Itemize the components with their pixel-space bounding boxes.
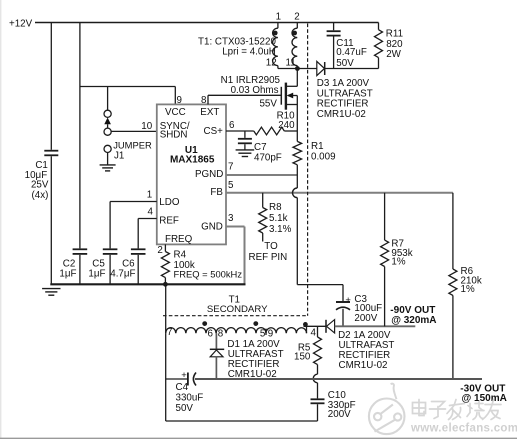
svg-text:J1: J1 [114,150,124,161]
svg-text:0.03 Ohms: 0.03 Ohms [231,85,279,96]
svg-text:6: 6 [208,328,214,339]
svg-text:0.47uF: 0.47uF [336,47,367,58]
svg-text:2: 2 [294,11,299,22]
svg-text:5: 5 [260,328,266,339]
svg-text:EXT: EXT [200,107,219,118]
svg-text:PGND: PGND [195,169,223,180]
svg-text:1%: 1% [461,284,475,295]
svg-text:7: 7 [167,327,172,338]
svg-text:+12V: +12V [9,18,33,29]
svg-text:C7: C7 [254,142,267,153]
svg-text:0.009: 0.009 [311,151,336,162]
svg-text:6: 6 [229,120,235,131]
svg-text:2W: 2W [386,49,401,60]
svg-text:FB: FB [210,187,223,198]
svg-text:+: + [345,295,351,306]
svg-text:150: 150 [294,352,311,363]
svg-text:50V: 50V [336,58,354,69]
svg-text:5.1k: 5.1k [269,213,288,224]
svg-text:1: 1 [147,190,152,201]
svg-text:200V: 200V [328,409,351,420]
svg-text:55V: 55V [259,99,277,110]
svg-text:3.1%: 3.1% [269,224,292,235]
svg-text:4.7μF: 4.7μF [110,269,135,280]
svg-text:8: 8 [201,95,207,106]
svg-text:+: + [181,370,187,381]
svg-text:GND: GND [201,222,223,233]
svg-text:1μF: 1μF [88,269,105,280]
svg-text:TO: TO [264,241,278,252]
svg-text:LDO: LDO [159,197,180,208]
svg-text:8: 8 [218,328,224,339]
svg-text:CMR1U-02: CMR1U-02 [317,109,366,120]
svg-text:12: 12 [266,58,277,69]
svg-text:50V: 50V [176,403,194,414]
svg-text:Lpri = 4.0uH: Lpri = 4.0uH [222,46,276,57]
svg-text:4: 4 [147,207,153,218]
svg-text:@ 150mA: @ 150mA [462,393,507,404]
svg-text:SHDN: SHDN [160,130,188,141]
svg-text:FREQ = 500kHz: FREQ = 500kHz [174,269,243,280]
svg-text:(4x): (4x) [32,190,49,201]
svg-text:CS+: CS+ [204,126,224,137]
svg-text:JUMPER: JUMPER [113,140,152,151]
svg-text:3: 3 [228,213,234,224]
svg-text:www.elecfans.com: www.elecfans.com [410,423,517,435]
svg-text:470pF: 470pF [254,153,282,164]
svg-text:C4: C4 [176,382,189,393]
svg-text:7: 7 [228,162,233,173]
svg-text:FREQ: FREQ [165,234,193,245]
svg-text:200V: 200V [354,313,377,324]
svg-text:CMR1U-02: CMR1U-02 [339,360,388,371]
svg-text:5: 5 [228,180,234,191]
svg-text:10: 10 [141,121,152,132]
svg-text:@ 320mA: @ 320mA [391,315,436,326]
svg-text:VCC: VCC [165,107,186,118]
svg-text:1%: 1% [391,257,405,268]
svg-text:9: 9 [268,328,273,339]
svg-text:MAX1865: MAX1865 [170,154,215,165]
svg-text:REF PIN: REF PIN [249,252,288,263]
svg-text:R11: R11 [386,29,403,40]
svg-text:SECONDARY: SECONDARY [207,304,268,315]
svg-text:1μF: 1μF [59,269,76,280]
svg-text:2: 2 [157,245,162,256]
svg-text:CMR1U-02: CMR1U-02 [228,369,277,380]
svg-text:R8: R8 [269,202,282,213]
svg-text:4: 4 [311,328,317,339]
svg-text:240: 240 [278,120,295,131]
svg-text:-90V OUT: -90V OUT [390,305,435,316]
svg-text:REF: REF [159,215,179,226]
svg-text:1: 1 [276,11,281,22]
svg-text:11: 11 [286,58,296,69]
svg-text:9: 9 [177,95,182,106]
